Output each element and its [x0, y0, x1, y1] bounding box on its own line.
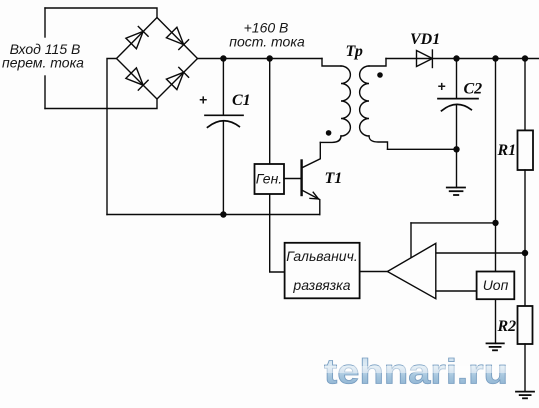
wire feedback to op-amp [411, 222, 496, 224]
resistor R2 [518, 306, 533, 344]
wire generator to isolation box [270, 194, 285, 272]
node plus rail / C1 [220, 55, 226, 61]
wire op-amp input 1 [436, 252, 525, 254]
ground under C2 [447, 188, 465, 196]
svg-text:C2: C2 [464, 81, 483, 98]
svg-text:C1: C1 [232, 92, 251, 109]
node output rail / R1 [522, 55, 528, 61]
capacitor C2 plates [438, 99, 478, 111]
wire R2 to ground [524, 344, 526, 392]
wire plus rail from bridge to transformer [198, 58, 323, 60]
svg-text:Uоп: Uоп [483, 277, 509, 293]
bridge diode D1 (left-top) [126, 27, 148, 49]
svg-text:Гальванич.: Гальванич. [286, 248, 357, 264]
svg-text:R2: R2 [497, 318, 517, 335]
wire bottom input rail [45, 99, 157, 109]
wire bridge minus lead [107, 59, 117, 215]
wire Uref rail branch [495, 59, 497, 223]
bridge diode D2 (top-right) [166, 27, 188, 49]
wire generator branch [269, 59, 271, 165]
node output rail / Uref [492, 55, 498, 61]
wire R2 top [524, 253, 526, 306]
wire R1 top [524, 59, 526, 131]
isolation box [285, 243, 360, 298]
svg-text:+: + [437, 78, 445, 94]
svg-text:+: + [199, 92, 207, 108]
ground under R2 [516, 392, 534, 399]
wire bottom rail [107, 214, 320, 216]
wire secondary bottom to C2 [388, 148, 457, 150]
wire left input lower segment [44, 76, 46, 109]
wire C2 bottom [456, 105, 458, 188]
svg-text:R1: R1 [497, 142, 517, 159]
generator box [255, 164, 285, 194]
svg-text:перем. тока: перем. тока [2, 55, 84, 71]
wire feedback vertical [410, 223, 412, 258]
transistor T1 [302, 142, 321, 214]
node plus rail / generator [267, 55, 273, 61]
wire generator to base [284, 178, 301, 180]
bridge diode D3 (left-bottom) [126, 68, 148, 90]
wire Uref to ground [495, 299, 497, 343]
wire R1 bottom to divider node [524, 170, 526, 253]
wire left input upper segment [44, 8, 46, 37]
node C2 bottom / secondary [453, 146, 459, 152]
transformer primary phase dot [326, 130, 332, 136]
svg-text:развязка: развязка [292, 277, 350, 293]
wire top input rail [45, 8, 157, 18]
wire C1 top [222, 59, 224, 116]
resistor R1 [518, 130, 534, 170]
wire op-amp input 2 [436, 290, 477, 292]
node bottom rail / C1 [220, 211, 226, 217]
wire Uref box top [495, 223, 497, 272]
transformer Tp secondary [360, 59, 388, 150]
transformer secondary phase dot [377, 72, 383, 78]
diode VD1 [417, 50, 433, 68]
transformer Tp primary [320, 59, 350, 143]
Uref box [477, 272, 515, 300]
svg-text:Тр: Тр [346, 43, 363, 60]
wire op-amp output to isolation [360, 271, 388, 273]
node output rail / C2 [453, 55, 459, 61]
wire C2 top [456, 59, 458, 99]
svg-text:пост. тока: пост. тока [229, 34, 305, 50]
wire C1 bottom [222, 121, 224, 215]
node divider R1 R2 [522, 250, 528, 256]
svg-text:VD1: VD1 [410, 31, 440, 48]
capacitor C1 plates [205, 115, 243, 127]
wire output rail [386, 58, 539, 60]
ground under Uref [487, 343, 504, 350]
bridge diamond edges [117, 18, 198, 100]
op-amp U1 [387, 243, 435, 298]
bridge diode D4 (bottom-right) [166, 67, 188, 89]
svg-text:Т1: Т1 [325, 170, 343, 187]
svg-text:Ген.: Ген. [256, 171, 282, 187]
node feedback [492, 220, 498, 226]
